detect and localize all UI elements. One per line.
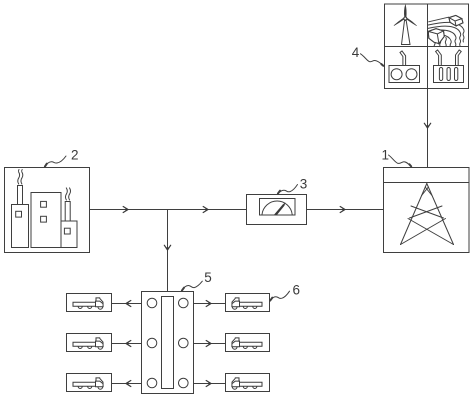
wire: renewables down to grid box — [427, 89, 429, 168]
boiler bar 3 — [455, 68, 458, 81]
svg-text:5: 5 — [204, 270, 212, 285]
pylon left leg — [401, 184, 427, 245]
factory left building — [12, 205, 29, 248]
circle row2 right — [179, 338, 189, 348]
box 1: grid substation — [384, 168, 470, 253]
factory right chimney — [65, 202, 70, 222]
factory right smoke — [65, 188, 67, 200]
arrowhead on bus mid segment — [203, 207, 208, 213]
wire: storage to left truck 3 — [112, 383, 142, 385]
left truck box row1 — [67, 294, 112, 312]
svg-text:6: 6 — [293, 283, 301, 298]
wind turbine blade up — [404, 5, 406, 17]
leader squiggle for label 4 — [361, 54, 384, 66]
circle row1 left — [147, 298, 157, 308]
box 2: factory power plant — [5, 168, 90, 253]
box 4: renewable sources 2x2 — [385, 4, 469, 89]
wire: meter to grid box — [307, 209, 384, 211]
box 5: storage / distribution — [142, 292, 194, 394]
circle row3 left — [147, 378, 157, 388]
wind turbine tower — [402, 21, 411, 45]
gauge needle — [274, 202, 285, 214]
factory left window — [16, 211, 22, 217]
pylon right leg — [427, 184, 454, 245]
left truck box row3 — [67, 374, 112, 392]
wave float upper — [449, 15, 463, 26]
wire: bus from factory to meter — [90, 209, 247, 211]
circle row3 right — [179, 378, 189, 388]
wire: storage to right truck 2 — [194, 343, 226, 345]
wire: storage to right truck 3 — [194, 383, 226, 385]
thermal plant circle 1 — [391, 69, 402, 80]
factory left chimney — [18, 186, 23, 205]
right truck box row2 — [226, 334, 270, 352]
arrowhead on bus left segment — [123, 207, 128, 213]
svg-text:3: 3 — [300, 176, 308, 191]
leader squiggle for label 2 — [45, 156, 67, 167]
header line — [384, 182, 470, 184]
boiler bar 1 — [439, 68, 442, 81]
arrowhead down to grid box — [424, 123, 430, 128]
box 3: meter — [247, 195, 307, 225]
right truck box row3 — [226, 374, 270, 392]
leader squiggle for label 5 — [181, 281, 202, 291]
wire: storage to left truck 2 — [112, 343, 142, 345]
wire: junction down to storage — [167, 210, 169, 292]
factory middle building — [31, 193, 61, 248]
arrowhead down to storage — [164, 245, 170, 250]
factory right window — [64, 228, 70, 234]
wind turbine hub — [404, 17, 407, 20]
arrowhead on bus right segment — [340, 207, 345, 213]
left truck box row2 — [67, 334, 112, 352]
wave lines — [428, 15, 464, 48]
gauge arc — [262, 201, 292, 214]
thermal plant circle 2 — [406, 69, 417, 80]
boiler plant body — [434, 66, 464, 83]
thermal plant chimney — [400, 51, 406, 66]
boiler chimney left — [436, 50, 442, 66]
factory right building — [61, 221, 77, 248]
wire: storage to left truck 1 — [112, 303, 142, 305]
svg-text:1: 1 — [382, 148, 390, 163]
leader squiggle for label 3 — [278, 185, 298, 195]
factory middle window 2 — [41, 216, 47, 222]
boiler chimney right — [456, 50, 462, 66]
pylon mid X brace — [411, 206, 444, 218]
circle row1 right — [179, 298, 189, 308]
leader squiggle for label 6 — [270, 291, 290, 301]
circle row2 left — [147, 338, 157, 348]
pylon big X brace — [408, 219, 454, 245]
factory left smoke — [18, 170, 20, 184]
wind turbine blade right — [407, 18, 417, 25]
factory middle window 1 — [41, 201, 47, 207]
thermal plant body — [389, 66, 420, 83]
wave float lower — [428, 29, 444, 44]
svg-text:4: 4 — [352, 45, 360, 60]
leader squiggle for label 1 — [389, 155, 412, 167]
pylon top diamond brace — [425, 187, 432, 196]
svg-text:2: 2 — [71, 148, 79, 163]
wire: storage to right truck 1 — [194, 303, 226, 305]
boiler bar 2 — [447, 68, 450, 81]
right truck box row1 — [226, 294, 270, 312]
wind turbine blade left — [394, 18, 404, 25]
